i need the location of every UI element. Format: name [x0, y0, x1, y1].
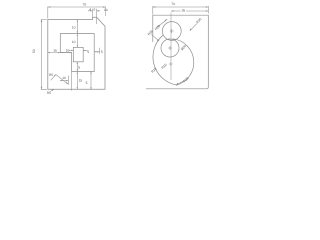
- centerline: [170, 13, 172, 81]
- square: [146, 15, 208, 89]
- boss rectangle: [73, 47, 83, 61]
- svg-text:16: 16: [53, 48, 57, 52]
- bottom mid dim: [60, 76, 68, 85]
- inner stepped pocket: [60, 34, 94, 72]
- leader to bottom edge: [51, 90, 54, 92]
- right drawing texts: [147, 2, 203, 83]
- top dim 70: [153, 6, 209, 15]
- vertical chain dims at x=77.3: [76, 20, 78, 90]
- second dim 35: [171, 10, 208, 12]
- left dimension 50: [41, 20, 47, 90]
- svg-text:5: 5: [87, 50, 89, 54]
- boss width dim arrows: [68, 49, 87, 51]
- svg-text:50: 50: [32, 49, 36, 53]
- svg-text:10: 10: [72, 26, 76, 30]
- small circle 2: [161, 39, 179, 57]
- leader R35 top right: [190, 24, 197, 31]
- dim at x=91 pocket bottom to base: [90, 72, 92, 90]
- center crosses: [168, 29, 174, 66]
- small circle 1: [162, 22, 181, 41]
- svg-text:10: 10: [66, 48, 70, 52]
- svg-text:5: 5: [101, 50, 103, 54]
- leader R20 top left: [157, 19, 168, 27]
- svg-text:70: 70: [171, 2, 175, 6]
- extension line below pocket: [71, 72, 73, 91]
- top dimension 78: [48, 7, 106, 19]
- svg-text:10: 10: [104, 8, 108, 12]
- right mid dim: [94, 48, 99, 54]
- svg-text:35: 35: [182, 9, 186, 13]
- leader R35 left: [152, 34, 160, 41]
- svg-text:10: 10: [72, 40, 76, 44]
- svg-text:4: 4: [89, 7, 91, 11]
- svg-text:R5: R5: [49, 73, 53, 77]
- svg-text:78: 78: [83, 3, 87, 7]
- svg-text:R5: R5: [47, 91, 51, 95]
- svg-text:5: 5: [78, 66, 80, 70]
- svg-text:8: 8: [94, 8, 96, 12]
- svg-text:15: 15: [79, 78, 83, 82]
- medium arc right side: [173, 39, 194, 86]
- bottom left leader: [51, 75, 68, 85]
- dim at y=52.6 left: [48, 52, 72, 54]
- leader bottom cusp: [176, 81, 184, 85]
- outer profile left part: [48, 17, 105, 89]
- big arc: [153, 35, 177, 85]
- left drawing texts: [32, 3, 108, 96]
- svg-text:10: 10: [62, 76, 66, 80]
- svg-text:5: 5: [86, 81, 88, 85]
- small 8 dimension top right: [88, 9, 100, 24]
- right drawing: [146, 6, 208, 89]
